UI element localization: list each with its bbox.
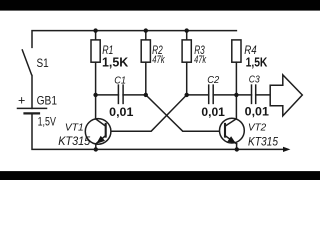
junction node R3 top xyxy=(185,28,189,32)
svg-text:0,01: 0,01 xyxy=(245,105,269,119)
wire C3 to output xyxy=(256,94,271,96)
wire cross-coupling C1 node to VT2 base xyxy=(146,95,225,131)
svg-text:47k: 47k xyxy=(194,54,207,66)
svg-text:1,5K: 1,5K xyxy=(246,55,268,70)
svg-text:1,5K: 1,5K xyxy=(102,55,129,70)
svg-text:GB1: GB1 xyxy=(37,95,57,108)
wire cross-coupling C2 node to VT1 base xyxy=(106,95,187,131)
wire VT1 collector node to C1 xyxy=(96,94,119,96)
svg-text:VT1: VT1 xyxy=(65,123,84,134)
svg-text:C3: C3 xyxy=(249,75,260,86)
junction node VT2 emitter xyxy=(235,147,239,151)
transistor VT1 xyxy=(85,95,111,149)
capacitor C3 xyxy=(252,85,256,103)
svg-text:0,01: 0,01 xyxy=(201,105,225,119)
wire R4 to node xyxy=(235,62,237,95)
junction node R1 top xyxy=(93,28,97,32)
svg-text:+: + xyxy=(18,93,25,107)
junction node R3 / C2 xyxy=(185,93,189,97)
junction node C1 / R2 xyxy=(144,93,148,97)
resistor R1 xyxy=(91,40,100,62)
wire C2 to R4 node xyxy=(213,94,236,96)
wire C1 to R2 node xyxy=(123,94,146,96)
junction node VT1 collector / C1 xyxy=(93,93,97,97)
svg-text:VT2: VT2 xyxy=(248,123,267,134)
wire R3 top xyxy=(186,31,188,40)
svg-text:1,5V: 1,5V xyxy=(38,115,56,128)
wire R4 node to C3 xyxy=(236,94,251,96)
wire switch to battery xyxy=(31,76,33,109)
junction node C2 / R4 / VT2 collector xyxy=(234,93,238,97)
svg-text:KT315: KT315 xyxy=(248,134,278,148)
switch S1 xyxy=(22,50,31,75)
output arrow symbol xyxy=(270,75,302,116)
capacitor C2 xyxy=(209,85,214,103)
svg-text:C2: C2 xyxy=(207,75,219,86)
wire R2 top xyxy=(145,31,147,40)
svg-text:KT315: KT315 xyxy=(58,134,90,148)
svg-text:47k: 47k xyxy=(152,54,165,66)
resistor R3 xyxy=(182,40,191,62)
wire R3 node to C2 xyxy=(187,94,209,96)
wire R1 top xyxy=(95,31,97,40)
resistor R4 xyxy=(232,40,241,62)
junction node R2 top xyxy=(144,28,148,32)
resistor R2 xyxy=(141,40,150,62)
svg-text:0,01: 0,01 xyxy=(109,105,133,119)
transistor VT2 xyxy=(220,95,245,149)
battery GB1 positive plate xyxy=(18,107,47,109)
capacitor C1 xyxy=(118,85,123,103)
wire R2 to C1 node xyxy=(145,62,147,95)
wire battery to bottom rail xyxy=(32,113,283,149)
svg-text:S1: S1 xyxy=(37,57,49,70)
svg-text:C1: C1 xyxy=(114,75,126,86)
wire R3 to C2 node xyxy=(186,62,188,95)
junction node VT1 emitter xyxy=(94,147,98,151)
wire R1 to C1 node xyxy=(95,62,97,95)
bottom rail arrowhead xyxy=(283,147,290,152)
wire top rail xyxy=(32,31,236,48)
battery GB1 negative plate xyxy=(25,112,40,114)
